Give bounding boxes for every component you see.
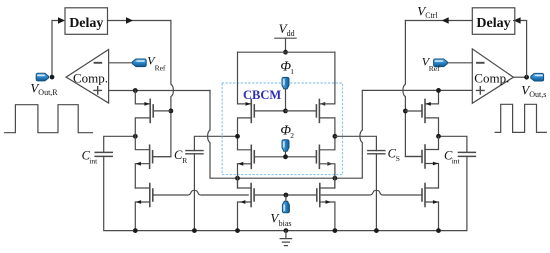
node T1L/T2L junction (133, 134, 138, 139)
capacitor C_int right plates (458, 152, 475, 156)
wire Delay R feedback vertical with hop over + wire (403, 21, 422, 157)
node C_S rail (374, 228, 379, 233)
node V_Out,R (50, 75, 55, 80)
node + wire / T1L drain (133, 88, 138, 93)
capacitor C_int left plates (95, 152, 112, 156)
wire comp L plus input going right (109, 90, 210, 92)
wire bias bus center segment (254, 194, 317, 196)
svg-text:R: R (182, 156, 187, 165)
transistor P2 (CBCM right PMOS) (318, 99, 320, 122)
node T1R/T2R junction (436, 134, 441, 139)
svg-text:Comp.: Comp. (474, 70, 509, 85)
arrow on Delay L output wire (126, 17, 133, 24)
node gate T1R (403, 109, 408, 114)
wire node S to C_S (335, 136, 377, 150)
waveform V_Out,s (right square wave) (495, 104, 546, 132)
waveform V_Out,R (left square wave) (5, 105, 93, 133)
CBCM dashed box (222, 83, 342, 175)
wire Delay L feedback vertical with hop over + wire (153, 21, 173, 157)
transistor P1 (CBCM left PMOS) (250, 99, 252, 122)
svg-text:S: S (396, 154, 400, 163)
svg-text:int: int (452, 157, 461, 166)
wire V_dd stub (285, 38, 287, 52)
wire V_bias stub (285, 195, 287, 201)
svg-text:int: int (89, 157, 98, 166)
node source bus right (333, 176, 338, 181)
svg-text:Out,R: Out,R (38, 88, 58, 97)
transistor T2R (424, 145, 426, 168)
op-amp U3 Comp. (right, points right) (472, 49, 513, 103)
wire Delay R output (405, 20, 472, 22)
capacitor C_S plates (368, 151, 385, 154)
capacitor C_R plates (186, 151, 203, 154)
wire C_R top to CBCM left column (194, 136, 237, 150)
node Phi2 gates (283, 154, 288, 159)
transistor T3L (149, 184, 151, 207)
transistor M2 mirror right (320, 178, 335, 230)
wire comp L minus input to V_Ref (109, 62, 133, 64)
node M2 rail (333, 228, 338, 233)
wire V_Out,R node up to Delay input (52, 21, 59, 78)
pin V_Out,s (points left) (531, 73, 544, 81)
node gate T1L (169, 109, 174, 114)
svg-text:1: 1 (290, 67, 294, 76)
wire C_S bottom to rail (375, 154, 377, 231)
pin Phi1 (points down) (282, 77, 289, 89)
minus label (left comp) (95, 62, 102, 64)
node C_R rail (192, 228, 197, 233)
node T3L on rail (133, 228, 138, 233)
wire V_dd rail (238, 51, 335, 53)
svg-text:2: 2 (290, 131, 294, 140)
node CBCM right / C_S (333, 134, 338, 139)
svg-text:dd: dd (287, 29, 295, 38)
wire comp R output to node (513, 76, 526, 78)
svg-text:Out,s: Out,s (529, 90, 546, 99)
transistor N2 (CBCM right NMOS) (318, 145, 320, 168)
wire V_Out,s node up to Delay R input (514, 21, 527, 78)
node source bus left (235, 176, 240, 181)
op-amp U2 Comp. (left, points left) (66, 50, 109, 104)
wire + node down to source bus (with hop), source bus, up to right comp + (208, 90, 473, 178)
plus label (right comp) (477, 87, 484, 94)
node ground rail (284, 228, 289, 233)
pin V_bias (points up) (282, 201, 289, 213)
wire Phi1 stub (285, 89, 287, 111)
wire comp R minus input to V_Ref (447, 62, 472, 64)
transistor T1L (149, 99, 151, 122)
svg-text:Ref: Ref (155, 63, 166, 72)
node Phi1 gates (283, 109, 288, 114)
wire C_int L top to T1L/T2L junction (104, 136, 136, 152)
node M1 rail (235, 228, 240, 233)
svg-text:bias: bias (279, 219, 292, 228)
node CBCM left / C_R (235, 134, 240, 139)
transistor T3R (424, 184, 426, 207)
transistor T1R (424, 99, 426, 122)
transistor T3L leads (135, 188, 150, 231)
wire bias bus left segment with hop over C_R (153, 190, 248, 195)
wire T1R junction to C_int right (439, 136, 467, 152)
node T3R rail (436, 228, 441, 233)
CBCM left column wires (238, 52, 252, 188)
arrow on Delay R output wire (442, 17, 449, 24)
power bar V_dd (275, 37, 296, 39)
transistor T2L leads (135, 136, 149, 188)
transistor N1 (CBCM left NMOS) (250, 145, 252, 168)
node V_dd rail (283, 50, 288, 55)
wire C_R bottom to rail (193, 154, 195, 231)
node + wire right / T1R (436, 88, 441, 93)
node V_bias (284, 193, 289, 198)
arrow into Delay L (58, 17, 65, 24)
pin V_Ref (left, points left) (132, 59, 146, 67)
svg-text:Ref: Ref (429, 64, 440, 73)
pin V_Out,R (blue, points right) (36, 73, 48, 81)
minus label (right comp) (477, 62, 484, 64)
plus label (left comp) (94, 87, 101, 94)
svg-text:Delay: Delay (69, 16, 103, 31)
transistor T2R leads (425, 136, 439, 188)
transistor T1R column leads (425, 90, 439, 136)
wire bias bus right segment with hop over C_S (321, 190, 422, 195)
ground symbol (280, 231, 291, 246)
wire Delay L output (108, 20, 171, 22)
arrow into Delay R (514, 17, 521, 24)
transistor T1L column leads (135, 91, 150, 137)
node V_Out,s (524, 75, 529, 80)
svg-text:CBCM: CBCM (243, 88, 281, 102)
wire C_int left bottom / ground rail / C_int right bottom (104, 156, 467, 230)
pin Phi2 (points down) (282, 140, 289, 152)
CBCM right column wires (319, 52, 335, 188)
transistor M1 mirror left (238, 178, 252, 230)
svg-text:Ctrl: Ctrl (425, 11, 438, 20)
pin V_Ref right (points right) (434, 59, 448, 67)
delay block U4 (right) (472, 8, 515, 35)
wire Phi2 stub (285, 151, 287, 157)
transistor T2L (149, 145, 151, 168)
svg-text:Delay: Delay (476, 16, 510, 31)
transistor T3R leads (425, 188, 439, 231)
delay block U1 (left) (65, 8, 108, 35)
svg-text:Comp.: Comp. (73, 70, 108, 85)
